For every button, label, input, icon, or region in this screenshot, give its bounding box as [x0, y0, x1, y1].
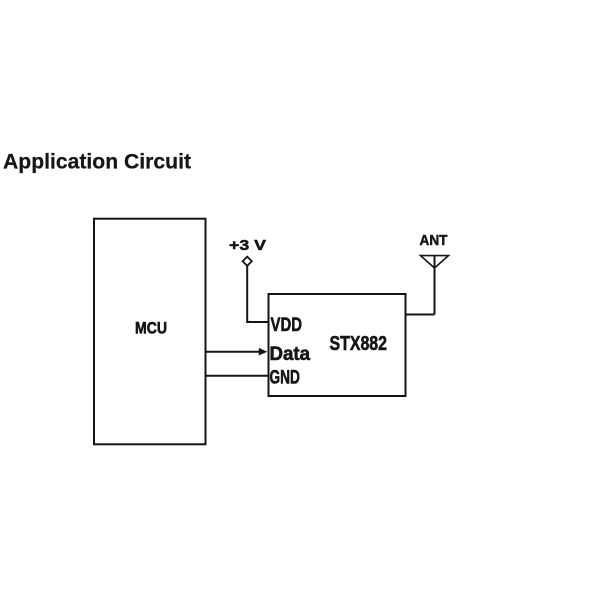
svg-text:MCU: MCU: [135, 319, 167, 338]
svg-text:Application Circuit: Application Circuit: [3, 149, 191, 174]
svg-text:Data: Data: [270, 343, 311, 365]
svg-text:+3 V: +3 V: [229, 238, 266, 254]
svg-text:GND: GND: [270, 367, 300, 389]
svg-text:STX882: STX882: [330, 333, 388, 355]
svg-text:VDD: VDD: [271, 314, 303, 336]
svg-text:ANT: ANT: [420, 233, 448, 249]
